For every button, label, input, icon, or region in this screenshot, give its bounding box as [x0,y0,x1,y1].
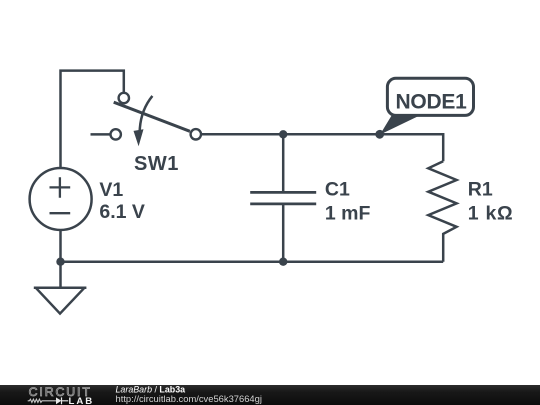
wire top rail from switch to R1 [201,134,443,161]
R1 zigzag body [428,161,456,262]
switch SW1 arrowhead [134,129,144,146]
node NODE1 callout pointer [380,116,419,135]
switch SW1 actuator arrow arc [140,96,153,131]
footer bar [0,385,540,405]
svg-text:http://circuitlab.com/cve56k37: http://circuitlab.com/cve56k37664gj [116,393,262,404]
switch SW1 left throw terminal [111,129,121,139]
V1 plus sign [50,177,71,198]
svg-text:NODE1: NODE1 [396,90,468,113]
wire C1 bottom lead [282,204,285,262]
ground symbol [34,288,87,314]
switch SW1 left throw stub wire [91,133,110,136]
V1 minus sign [50,212,71,214]
capacitor C1 [250,179,370,225]
node NODE1 junction dot [375,130,384,139]
svg-text:1 mF: 1 mF [325,202,371,224]
junction node at V1 bottom [56,258,64,266]
svg-text:C1: C1 [325,179,350,201]
switch SW1 right pole terminal [191,129,201,139]
switch SW1 top terminal [119,93,129,103]
switch SW1 blade [114,102,190,131]
wire V1 bottom lead to ground [59,231,62,288]
svg-text:SW1: SW1 [134,153,179,175]
svg-text:V1: V1 [99,179,123,201]
wire bottom rail [61,260,444,263]
junction node at C1 top [279,130,287,138]
wire C1 top lead [282,134,285,192]
wire V1 top to switch top terminal [61,71,124,168]
switch SW1 [91,93,202,175]
C1 top plate [250,191,316,194]
node NODE1 callout bubble [387,78,473,115]
C1 bottom plate [250,202,316,205]
voltage source V1 [30,168,145,230]
svg-text:6.1 V: 6.1 V [99,201,145,223]
CircuitLab logo diode [56,397,61,404]
svg-text:R1: R1 [468,178,493,200]
V1 circle body [30,168,92,230]
junction node at C1 bottom [279,258,287,266]
svg-text:LAB: LAB [69,396,95,405]
CircuitLab logo resistor squiggle [28,399,56,402]
svg-text:1 kΩ: 1 kΩ [468,203,514,225]
resistor R1 [428,161,513,262]
